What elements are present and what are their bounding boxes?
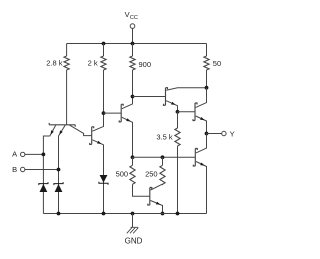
wire Q5 emitter — [196, 116, 207, 134]
wire input A — [25, 153, 44, 155]
wire top rail — [67, 43, 207, 45]
wire R1 top lead — [66, 44, 68, 57]
wire output Y — [207, 133, 222, 135]
node D2 rail junction — [57, 212, 61, 216]
svg-text:V: V — [125, 10, 130, 19]
wire 500 top lead — [132, 157, 134, 165]
wire R2 top lead — [103, 44, 105, 57]
node Q6 emitter rail junction — [161, 212, 165, 216]
node 900 / Q3 collector / Q4 base — [131, 95, 135, 99]
resistor R4 50 — [204, 56, 209, 70]
wire 250 bottom lead — [162, 183, 164, 186]
node A junction — [42, 153, 46, 157]
wire Q1 emitter 1 — [43, 125, 55, 213]
node 2k / Q2 collector / Q3 base — [102, 111, 106, 115]
wire Q1 collector — [69, 125, 92, 136]
Vcc terminal — [130, 24, 135, 29]
wire R1 bottom lead to Q1 base — [66, 70, 68, 125]
wire 250 top lead — [162, 157, 164, 165]
svg-text:250: 250 — [145, 169, 158, 178]
wire Q2 collector — [92, 113, 103, 131]
wire input B — [25, 169, 59, 171]
wire bottom rail — [43, 213, 206, 215]
wire Q4 base — [133, 96, 166, 98]
wire Q1 emitter 2 — [59, 125, 66, 213]
input A terminal — [21, 152, 25, 156]
node darlington emitter / 3.5k — [176, 110, 180, 114]
wire Q3 collector — [122, 97, 133, 109]
output Y terminal — [222, 131, 226, 135]
transistor Q2 base bar — [90, 127, 94, 145]
node D3 rail junction — [102, 212, 106, 216]
wire Q4 emitter — [166, 101, 177, 112]
wire GND stub — [132, 214, 134, 228]
wire Q3 base — [104, 112, 122, 114]
wire Q6 emitter — [151, 201, 163, 214]
node 250 top junction — [161, 155, 165, 159]
wire 3.5k bottom lead — [177, 146, 179, 214]
svg-text:2.8 k: 2.8 k — [46, 58, 63, 67]
transistor Q4 base bar — [164, 88, 168, 106]
wire R4 bottom lead — [206, 70, 208, 88]
svg-text:3.5 k: 3.5 k — [156, 132, 173, 141]
ground symbol — [127, 227, 139, 233]
node 3.5k rail junction — [176, 212, 180, 216]
wire Q5 collector — [196, 88, 207, 108]
wire Q6 collector — [151, 184, 163, 190]
svg-text:2 k: 2 k — [88, 58, 98, 67]
node B junction — [57, 168, 61, 172]
wire Q7 emitter — [196, 162, 207, 214]
node Vcc rail junction — [131, 42, 135, 46]
diode D1 input clamp — [40, 184, 48, 192]
svg-text:B: B — [12, 165, 17, 174]
transistor Q5 base bar — [193, 103, 197, 121]
diode D3 on Q2 emitter — [100, 175, 108, 183]
wire Q7 collector — [196, 134, 207, 153]
svg-text:Y: Y — [230, 129, 235, 138]
wire R2 bottom lead — [103, 70, 105, 113]
resistor R5 500 — [130, 165, 135, 184]
wire Q4 collector — [166, 88, 206, 91]
resistor R1 2.8k — [64, 56, 69, 70]
wire Q2 emitter — [92, 140, 103, 214]
wire R3 top lead — [132, 44, 134, 57]
wire squaring top line — [133, 156, 196, 158]
node GND rail junction — [131, 212, 135, 216]
diode D2 input clamp — [55, 184, 63, 192]
svg-text:A: A — [12, 150, 17, 159]
node squaring network top — [131, 155, 135, 159]
node 2k rail junction — [102, 42, 106, 46]
wire Vcc stem — [132, 28, 134, 43]
wire R4 top lead — [206, 44, 208, 57]
svg-text:500: 500 — [116, 169, 129, 178]
wire Q5 base — [178, 111, 196, 113]
wire 500 bottom lead to Q6 base — [133, 184, 150, 196]
transistor Q6 base bar — [148, 188, 152, 206]
node 50 bottom junction — [205, 86, 209, 90]
svg-text:CC: CC — [130, 15, 138, 21]
node output Y junction — [205, 132, 209, 136]
wire R3 bottom lead — [132, 70, 134, 97]
svg-text:900: 900 — [139, 60, 152, 69]
resistor R3 900 — [130, 56, 135, 70]
transistor Q3 base bar — [119, 104, 123, 122]
wire Q3 emitter — [122, 117, 133, 157]
wire 3.5k top lead — [177, 112, 179, 128]
transistor Q1 base bar — [49, 123, 75, 127]
svg-text:50: 50 — [213, 59, 221, 68]
resistor R2 2k — [101, 56, 106, 70]
resistor R7 3.5k — [175, 128, 180, 146]
transistor Q7 base bar — [193, 149, 197, 167]
svg-text:GND: GND — [125, 237, 143, 246]
input B terminal — [21, 167, 25, 171]
resistor R6 250 — [160, 165, 165, 184]
